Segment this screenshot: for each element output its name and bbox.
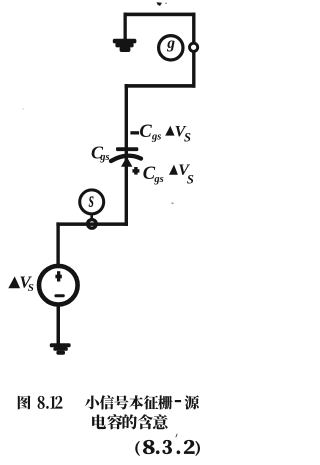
caption line 1: 图 8.12 小信号本征栅-源 bbox=[18, 395, 199, 409]
caption line 2: 电容的含意 bbox=[92, 414, 168, 429]
svg-text:gs: gs bbox=[153, 174, 163, 185]
node on gate lead (open terminal) bbox=[190, 43, 198, 51]
terminal circle g (gate) bbox=[159, 36, 183, 60]
wire: stub down to top ground bbox=[124, 13, 127, 39]
faint stray dot bbox=[172, 203, 174, 205]
plus sign inside source bbox=[55, 271, 61, 281]
svg-text:S: S bbox=[187, 172, 194, 186]
wire: below source to ground bbox=[57, 304, 61, 345]
terminal circle s (source) bbox=[80, 190, 104, 214]
minus sign inside source bbox=[54, 294, 64, 297]
label +Cgs DVs (bottom charge) bbox=[132, 162, 194, 186]
svg-text:gs: gs bbox=[151, 132, 161, 143]
svg-text:S: S bbox=[28, 282, 34, 294]
capacitor Cgs: curved bottom plate bbox=[111, 156, 141, 167]
wire: middle vertical through capacitor bbox=[125, 84, 128, 226]
voltage source DVs circle bbox=[39, 266, 78, 305]
label -Cgs DVs (top charge) bbox=[130, 122, 191, 145]
stray ink speck above top wire bbox=[157, 2, 167, 6]
svg-text:C: C bbox=[139, 122, 152, 142]
ground (top) bbox=[113, 39, 137, 52]
wire: stub from s circle to node bbox=[90, 213, 93, 221]
faint stray dot left bbox=[23, 109, 24, 110]
svg-text:S: S bbox=[184, 130, 191, 144]
node below s (open terminal on wire) bbox=[88, 220, 97, 229]
label g bbox=[166, 35, 175, 52]
value label DVs (source) bbox=[8, 272, 34, 294]
svg-text:gs: gs bbox=[99, 152, 109, 163]
wire: bottom horizontal (source lead) bbox=[56, 222, 128, 226]
caption hyphen in 栅-源 bbox=[175, 400, 181, 402]
capacitor Cgs: straight top plate bbox=[116, 147, 138, 151]
ground (bottom) bbox=[50, 343, 71, 355]
wire: left vertical down to source bbox=[56, 222, 59, 266]
value label Cgs (left of capacitor) bbox=[91, 142, 110, 163]
wire: right vertical (gate lead) bbox=[192, 13, 195, 88]
caption line 3: (8.3.2) bbox=[136, 440, 200, 456]
svg-text:s: s bbox=[88, 187, 94, 213]
tick above caption line 3 bbox=[175, 434, 177, 438]
label s bbox=[88, 187, 94, 213]
svg-text:g: g bbox=[166, 35, 175, 52]
wire: top horizontal rail bbox=[124, 13, 196, 17]
wire: horizontal jog bbox=[125, 84, 196, 88]
